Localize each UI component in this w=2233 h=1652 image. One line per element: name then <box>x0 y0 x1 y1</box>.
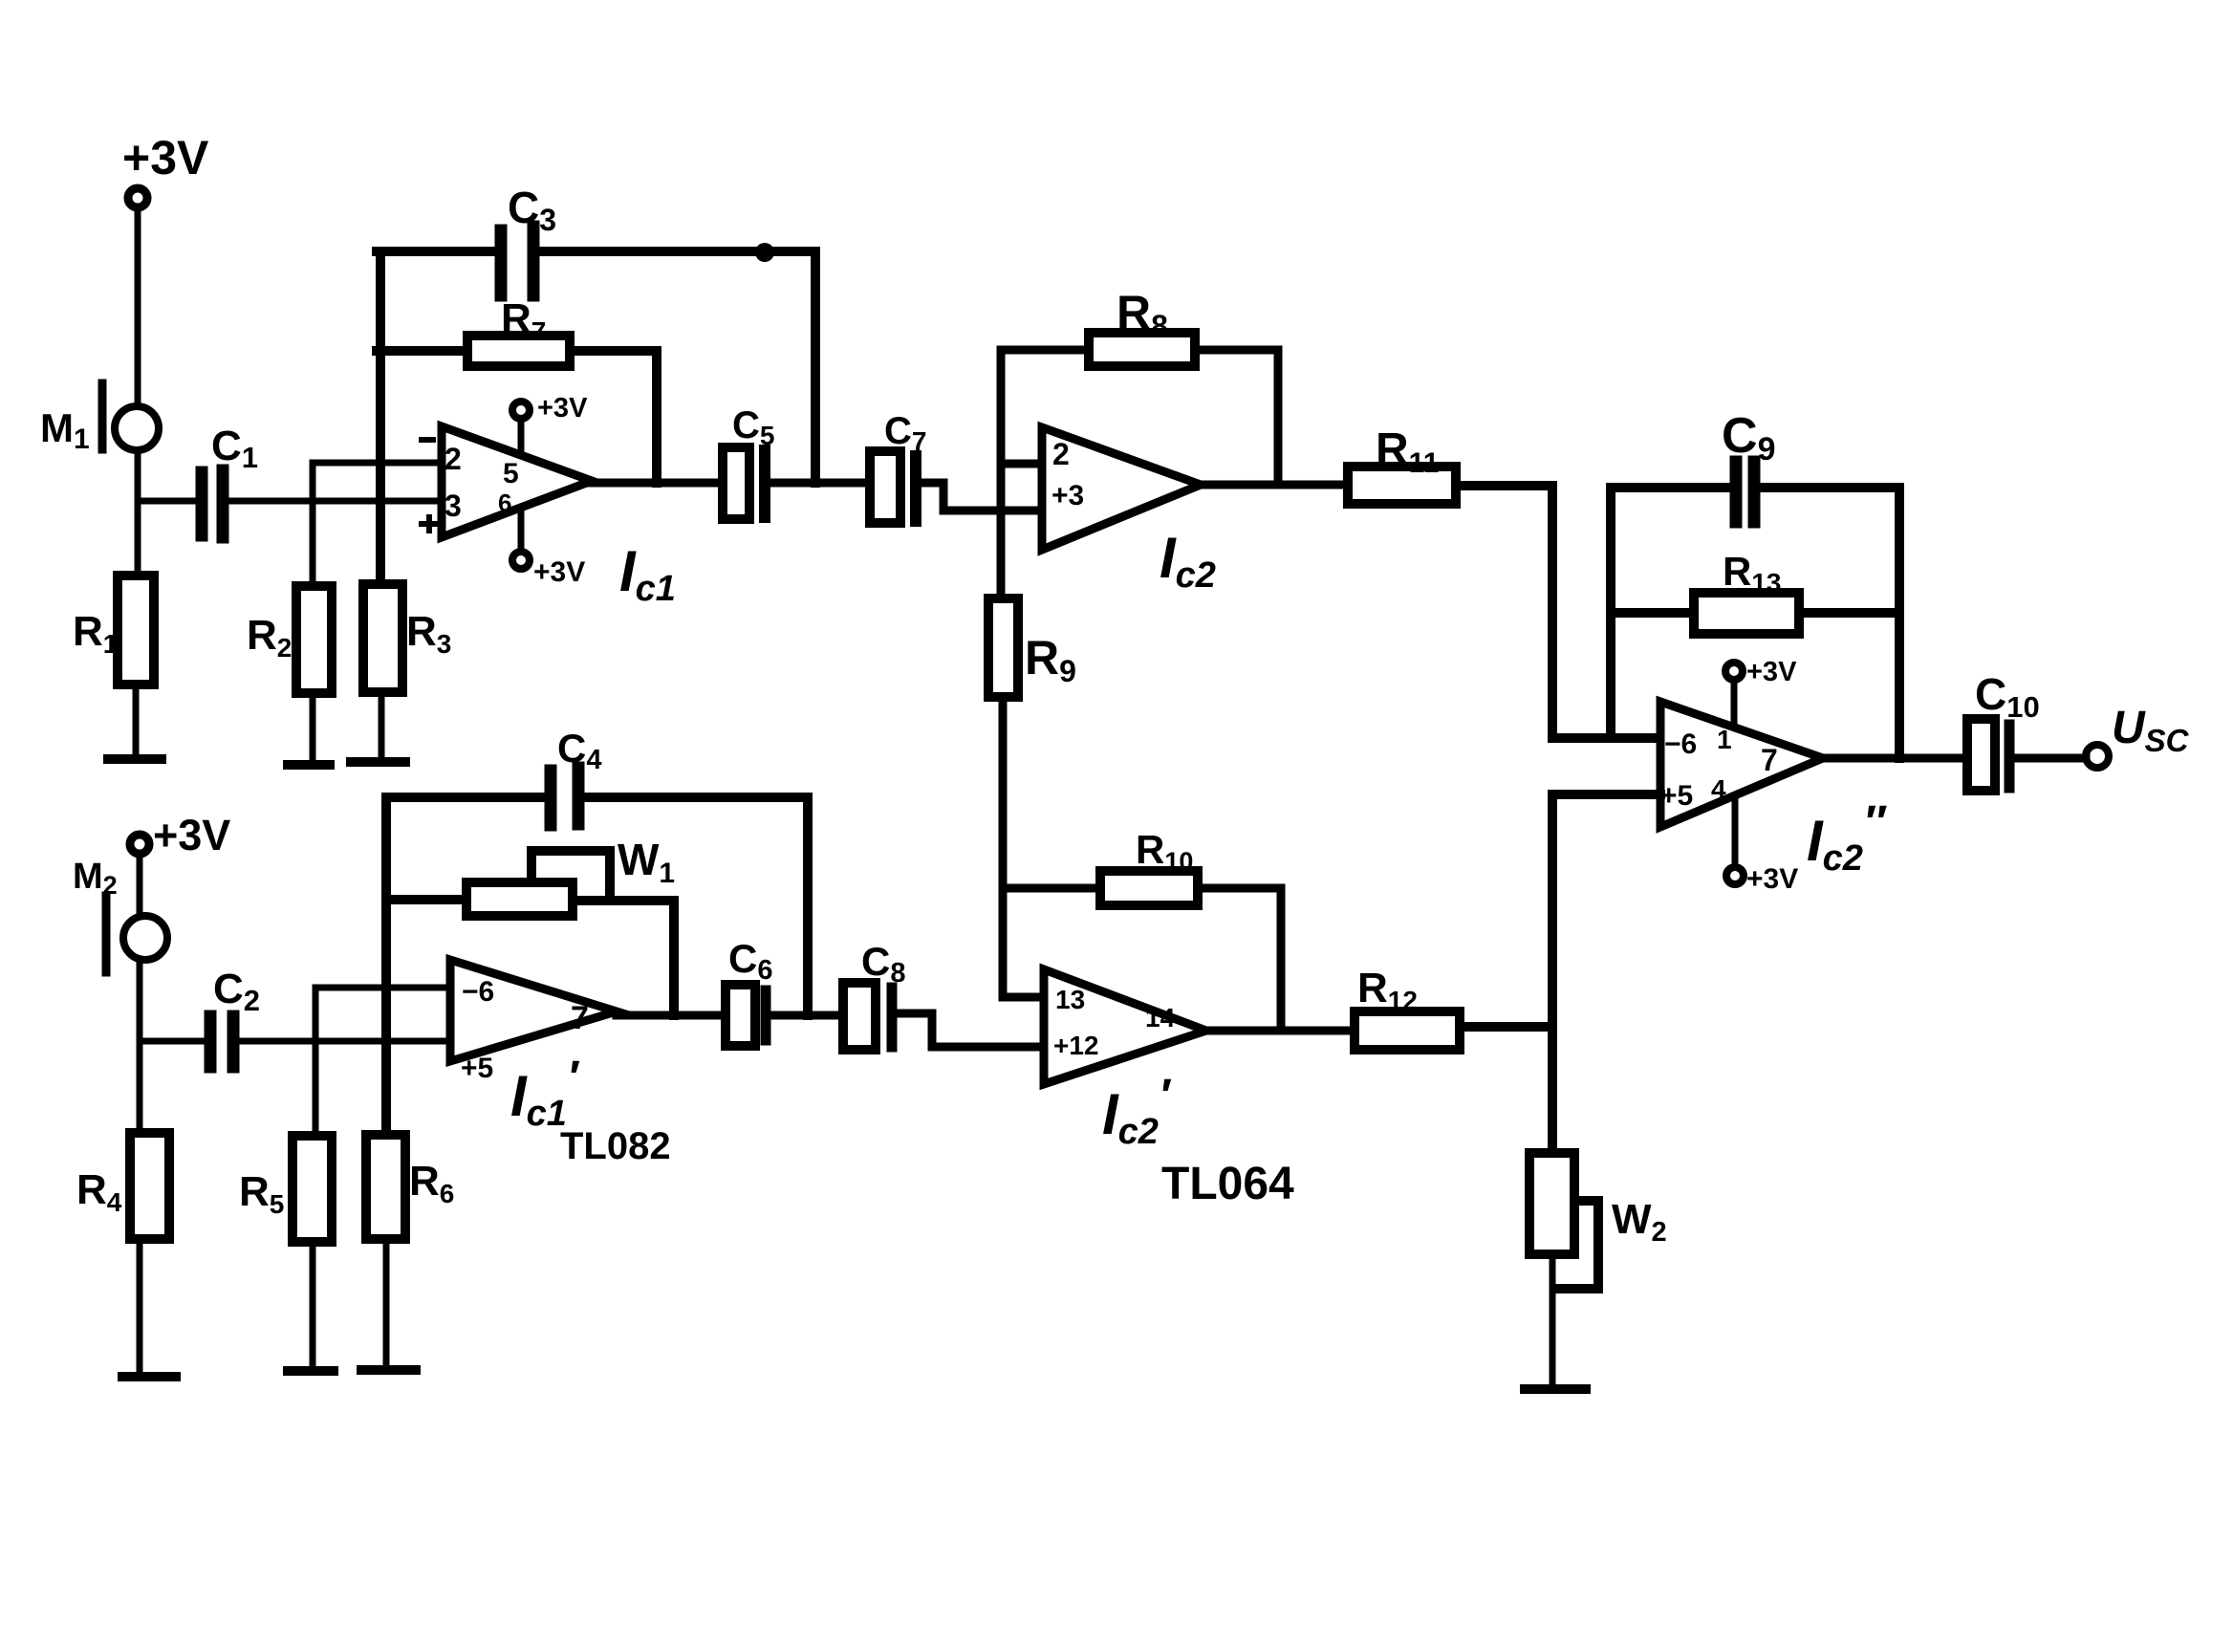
svg-text:6: 6 <box>498 489 511 517</box>
svg-text:+5: +5 <box>1660 780 1693 812</box>
svg-text:+3V: +3V <box>1746 863 1798 895</box>
svg-text:4: 4 <box>1711 774 1726 804</box>
svg-text:−6: −6 <box>462 976 494 1008</box>
svg-text:+3V: +3V <box>153 811 230 859</box>
svg-text:14: 14 <box>1145 1003 1176 1032</box>
svg-text:7: 7 <box>571 1000 589 1036</box>
svg-text:+3V: +3V <box>1746 657 1797 687</box>
svg-text:1: 1 <box>1717 725 1732 754</box>
svg-text:TL064: TL064 <box>1161 1159 1294 1209</box>
svg-text:+3V: +3V <box>533 556 585 588</box>
svg-text:2: 2 <box>1052 437 1070 471</box>
svg-text:TL082: TL082 <box>560 1125 671 1167</box>
svg-text:+5: +5 <box>461 1053 493 1084</box>
svg-text:13: 13 <box>1055 985 1085 1014</box>
svg-text:+3V: +3V <box>537 393 588 424</box>
svg-text:3: 3 <box>444 489 462 523</box>
svg-text:+3: +3 <box>1051 480 1084 511</box>
svg-text:−6: −6 <box>1664 728 1697 760</box>
svg-text:+3V: +3V <box>122 131 209 185</box>
svg-text:2: 2 <box>444 442 462 476</box>
svg-text:7: 7 <box>1761 743 1778 777</box>
svg-text:+12: +12 <box>1053 1031 1099 1060</box>
svg-text:5: 5 <box>503 458 519 489</box>
